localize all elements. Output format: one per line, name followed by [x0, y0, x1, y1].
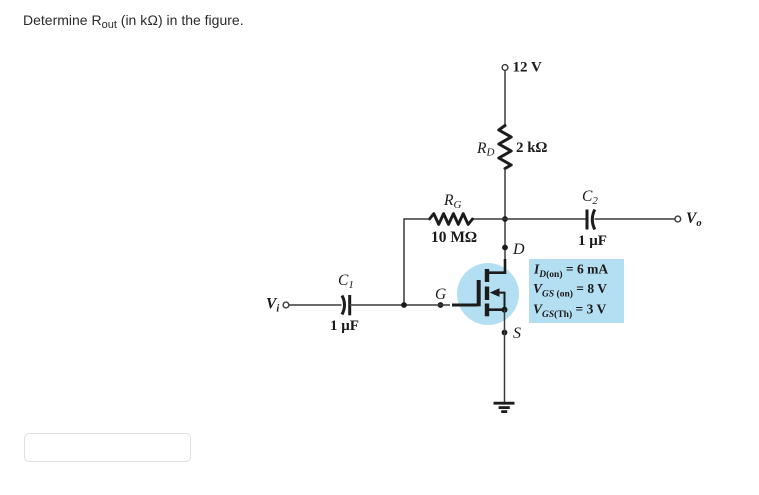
wire RG left leg down to input line: [404, 219, 430, 305]
svg-text:D: D: [512, 241, 525, 258]
body arrow: [490, 288, 500, 297]
svg-text:10 MΩ: 10 MΩ: [431, 229, 477, 246]
terminal Vi: [266, 296, 289, 315]
wire node to C2: [505, 218, 586, 220]
node junction RG/C2: [502, 216, 508, 222]
svg-text:RG: RG: [443, 192, 461, 211]
node S: [502, 325, 521, 342]
node junction RG leg / input line: [401, 302, 407, 308]
resistor RG: [430, 192, 478, 246]
svg-text:1 μF: 1 μF: [330, 318, 359, 334]
svg-text:C2: C2: [582, 188, 598, 207]
wire Vi to C1: [289, 304, 342, 306]
gate lead: [452, 304, 477, 307]
terminal Vo: [675, 210, 702, 229]
wire source to ground: [504, 310, 506, 403]
svg-text:RD: RD: [476, 140, 494, 159]
wire node to RG: [473, 218, 505, 220]
svg-text:2 kΩ: 2 kΩ: [516, 140, 548, 156]
svg-text:C1: C1: [338, 272, 354, 291]
answer input box: [24, 433, 191, 462]
svg-text:G: G: [435, 286, 446, 303]
wire C1 to gate: [350, 304, 450, 306]
capacitor C2: [578, 188, 607, 249]
svg-text:Vi: Vi: [266, 296, 279, 315]
spec box: [529, 259, 624, 323]
source lead: [487, 308, 505, 311]
title: [23, 12, 244, 28]
wire RD to drain: [504, 169, 506, 274]
channel segment bottom: [485, 304, 489, 317]
wire supply to RD: [504, 71, 506, 126]
svg-text:S: S: [513, 325, 521, 342]
svg-text:Vo: Vo: [686, 210, 702, 229]
node source junction: [502, 307, 508, 313]
node D: [502, 241, 525, 258]
transistor Q1 (E-MOSFET): [452, 259, 519, 325]
channel segment middle: [485, 287, 489, 301]
capacitor C1: [330, 272, 359, 334]
svg-text:1 μF: 1 μF: [578, 233, 607, 249]
channel segment top: [485, 269, 489, 282]
ground: [494, 403, 515, 411]
node G: [435, 286, 446, 308]
wire C2 to Vo: [595, 218, 675, 220]
svg-text:12 V: 12 V: [513, 60, 542, 76]
drain lead: [487, 259, 505, 273]
gate bar: [477, 280, 481, 306]
terminal 12V: [502, 60, 542, 76]
resistor RD: [476, 126, 548, 169]
